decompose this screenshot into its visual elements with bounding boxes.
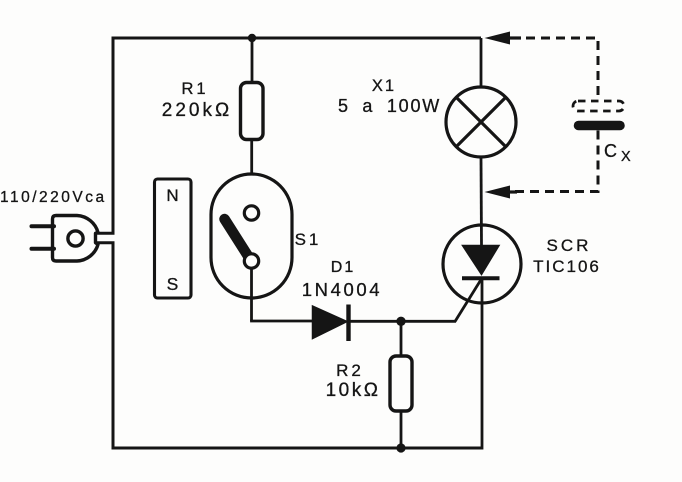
wire dashed bottom feedback xyxy=(514,131,598,192)
wire lamp to SCR anode xyxy=(480,158,483,246)
svg-text:R1: R1 xyxy=(181,80,208,98)
plug P1 xyxy=(32,216,115,262)
reed switch S1 bottom contact xyxy=(244,254,258,268)
wire diode to gate xyxy=(350,320,456,323)
node junction diode/R2 xyxy=(396,317,405,326)
wire left rail lower xyxy=(112,243,115,448)
svg-text:R2: R2 xyxy=(336,361,364,380)
wire reed to diode xyxy=(250,320,312,323)
magnet (N/S) xyxy=(155,179,192,298)
wire R2 top lead xyxy=(400,321,403,358)
svg-text:N: N xyxy=(166,186,178,205)
wire SCR gate diagonal xyxy=(455,278,482,322)
lamp X1 xyxy=(446,87,516,157)
resistor R1 xyxy=(241,83,264,140)
wire R1 bottom lead to reed contact xyxy=(250,139,253,207)
svg-text:S1: S1 xyxy=(295,230,322,249)
SCR TIC106 xyxy=(443,225,521,303)
svg-text:TIC106: TIC106 xyxy=(533,257,601,276)
svg-text:220kΩ: 220kΩ xyxy=(162,100,232,121)
diode D1 xyxy=(313,305,349,342)
capacitor Cx top plate (dashed) xyxy=(573,101,624,111)
svg-text:5 a 100W: 5 a 100W xyxy=(338,96,441,116)
wire R1 top lead xyxy=(251,38,254,84)
capacitor Cx bottom plate xyxy=(579,121,621,131)
wire R2 bottom lead xyxy=(400,411,403,448)
resistor R2 xyxy=(390,356,412,411)
reed switch S1 lever xyxy=(225,219,249,256)
svg-text:C: C xyxy=(604,141,617,161)
wire reed bottom lead xyxy=(250,268,253,321)
svg-text:10kΩ: 10kΩ xyxy=(326,380,381,401)
svg-text:X1: X1 xyxy=(372,77,396,95)
svg-text:110/220Vca: 110/220Vca xyxy=(0,189,107,206)
svg-text:D1: D1 xyxy=(331,259,355,276)
reed switch S1 capsule xyxy=(211,174,292,298)
svg-text:S: S xyxy=(167,274,179,294)
wire SCR cathode to bottom rail xyxy=(481,280,484,450)
node junction R2/bottom rail xyxy=(396,443,405,452)
svg-text:1N4004: 1N4004 xyxy=(302,279,382,300)
node junction top (R1 tap) xyxy=(248,34,256,42)
arrow feedback bottom xyxy=(485,186,518,199)
svg-text:SCR: SCR xyxy=(547,236,592,255)
wire dashed top feedback xyxy=(526,38,598,99)
wire lamp top lead xyxy=(480,38,483,88)
svg-text:X: X xyxy=(621,149,631,165)
wire left rail upper xyxy=(112,37,115,234)
reed switch S1 top contact xyxy=(244,206,258,220)
arrow feedback top xyxy=(485,32,522,45)
wire top rail xyxy=(113,37,481,40)
wire bottom rail xyxy=(112,447,483,450)
